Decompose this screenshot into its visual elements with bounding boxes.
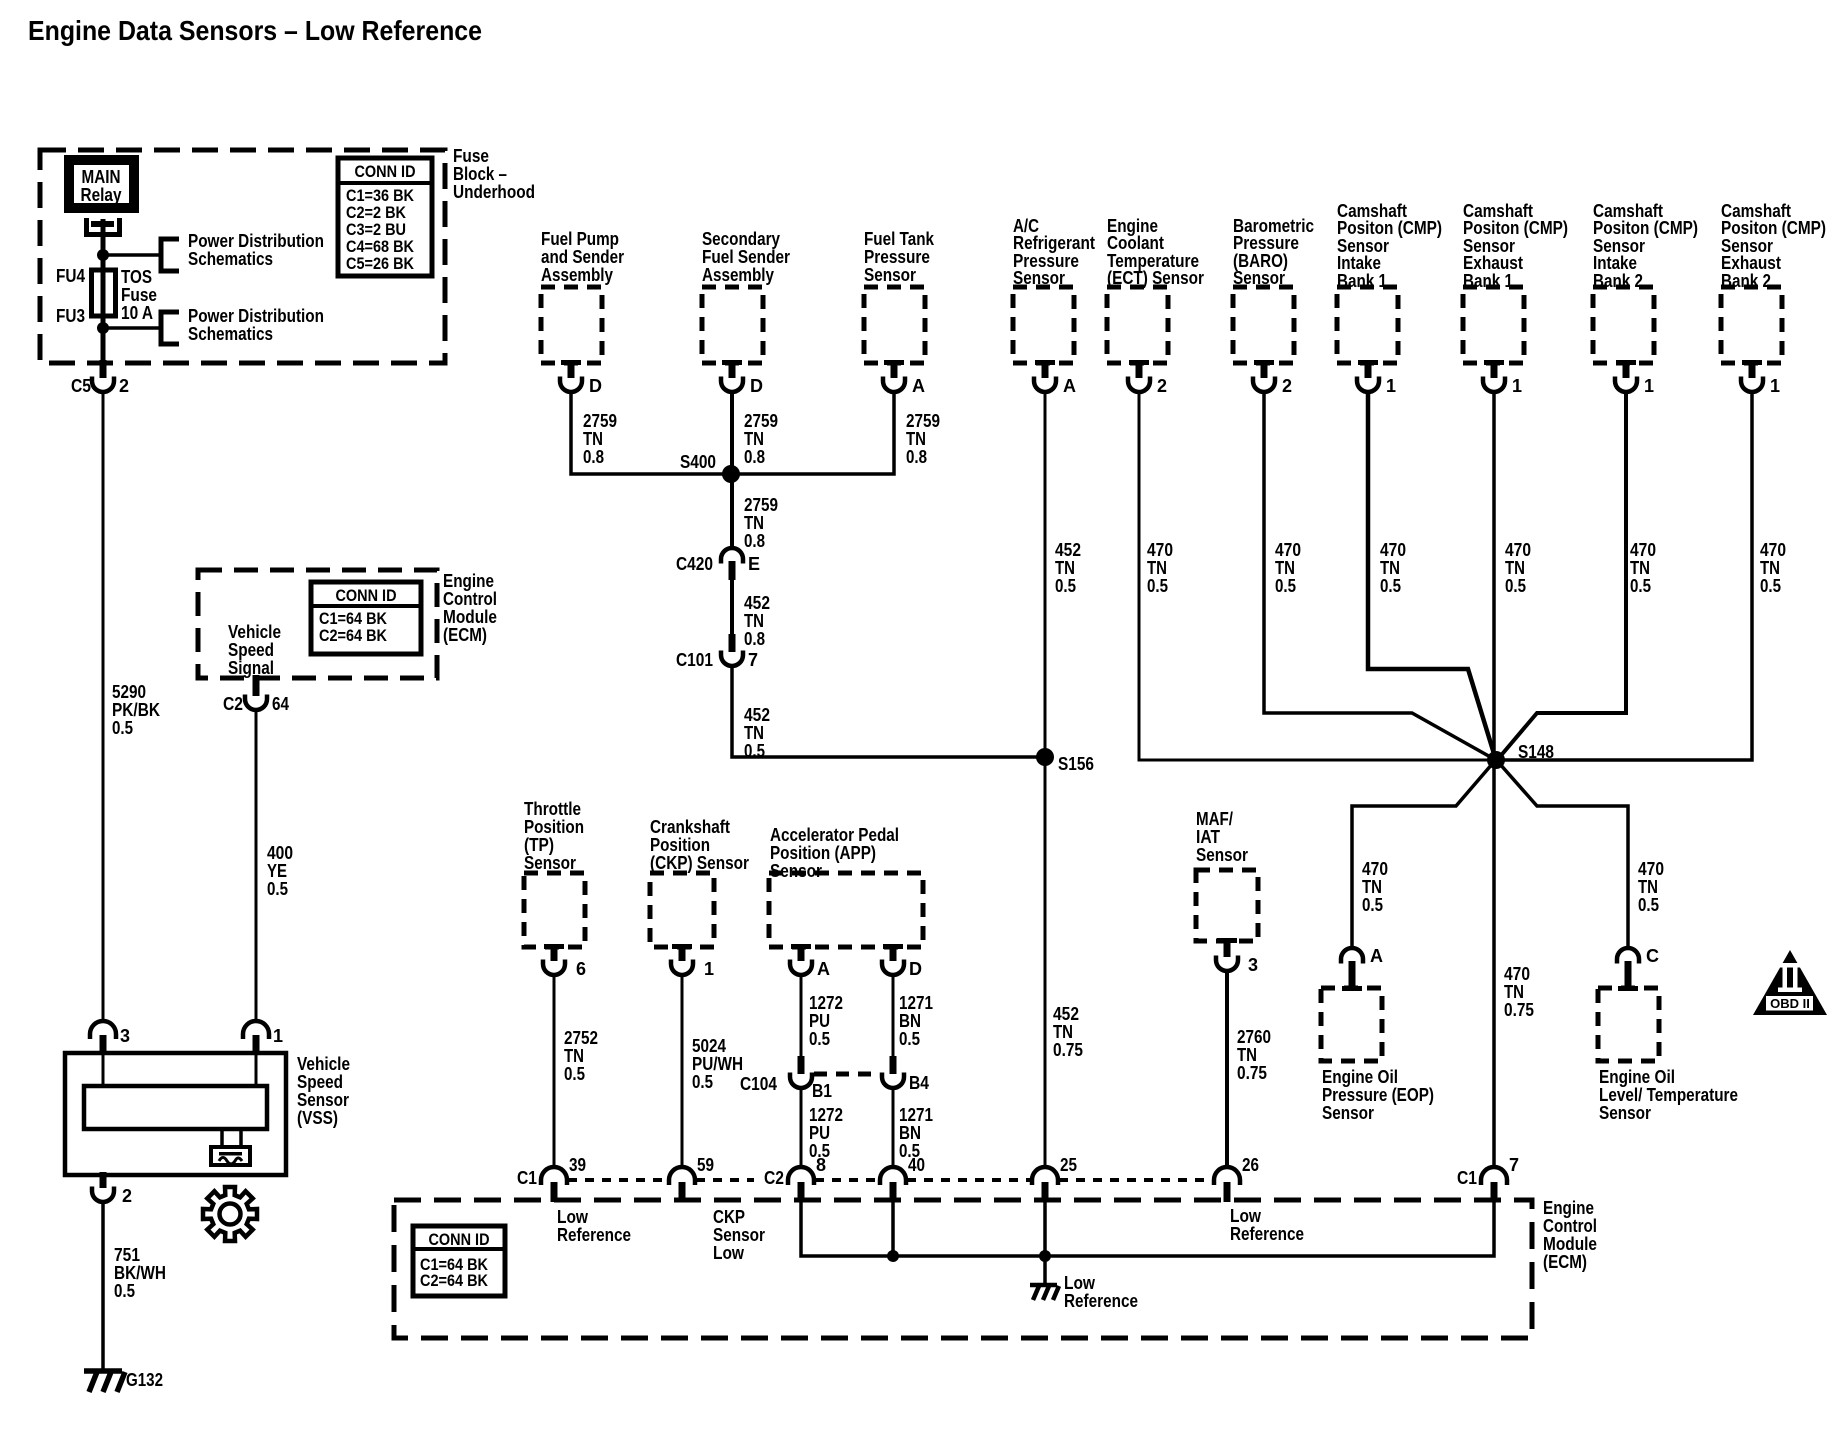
pin 2 of Engine Coolant Temperature (ECT) Sensor (1129, 360, 1149, 365)
ECM pin 59 connector (669, 1167, 695, 1185)
svg-text:C101: C101 (676, 650, 713, 670)
svg-text:BN: BN (899, 1123, 921, 1143)
svg-text:C2=64 BK: C2=64 BK (319, 626, 388, 645)
svg-text:2760: 2760 (1237, 1027, 1271, 1047)
sensor CMP Sensor Intake Bank 1 (1337, 287, 1398, 363)
svg-text:D: D (589, 376, 602, 396)
svg-text:Fuel Pump: Fuel Pump (541, 229, 619, 249)
svg-text:C2: C2 (764, 1168, 784, 1188)
svg-text:452: 452 (1053, 1004, 1079, 1024)
pin A of engine oil pressure (EOP) sensor (1341, 948, 1363, 964)
svg-text:C1: C1 (517, 1168, 537, 1188)
CONN ID table (fuse block) (338, 158, 432, 276)
svg-text:Low: Low (557, 1207, 589, 1227)
svg-text:CONN ID: CONN ID (355, 162, 416, 181)
svg-text:Control: Control (1543, 1216, 1597, 1236)
svg-text:Signal: Signal (228, 658, 274, 678)
svg-text:Power Distribution: Power Distribution (188, 231, 324, 251)
ECM pin 39 connector (541, 1167, 567, 1185)
svg-text:TN: TN (583, 429, 603, 449)
wire CMP intake bank2 470 TN (1498, 391, 1626, 759)
svg-text:TN: TN (744, 611, 764, 631)
VSS pin 1 connector (243, 1021, 269, 1039)
pin C of engine oil level/temperature sensor (1617, 948, 1639, 964)
svg-text:470: 470 (1275, 540, 1301, 560)
svg-text:0.5: 0.5 (1505, 576, 1526, 596)
CONN ID table (upper ECM) (311, 582, 421, 654)
svg-text:2: 2 (122, 1186, 132, 1206)
wire CMP exhaust bank2 470 TN (1502, 391, 1752, 760)
svg-text:Sensor: Sensor (1233, 268, 1285, 288)
svg-text:8: 8 (816, 1155, 826, 1175)
wire CMP intake bank1 470 TN (1368, 391, 1495, 757)
svg-text:0.5: 0.5 (1638, 895, 1659, 915)
svg-text:Module: Module (1543, 1234, 1597, 1254)
ECM pin row dashed line (568, 1178, 668, 1182)
svg-text:MAIN: MAIN (82, 167, 121, 187)
svg-text:0.5: 0.5 (1630, 576, 1651, 596)
wire to off-page 1 (103, 253, 161, 257)
svg-text:C5=26 BK: C5=26 BK (346, 254, 415, 273)
svg-text:39: 39 (569, 1155, 586, 1175)
C104 connector dashed link (814, 1072, 880, 1077)
pin 1 of CMP Sensor Intake Bank 1 (1358, 360, 1378, 365)
svg-text:TN: TN (1055, 558, 1075, 578)
svg-text:Sensor: Sensor (524, 853, 576, 873)
wire APP-D 1271 BN lower (892, 1088, 895, 1167)
svg-text:S156: S156 (1058, 754, 1094, 774)
svg-text:FU3: FU3 (56, 306, 85, 326)
svg-text:3: 3 (120, 1026, 130, 1046)
svg-text:C2: C2 (223, 694, 243, 714)
svg-text:Engine: Engine (1543, 1198, 1594, 1218)
svg-text:0.5: 0.5 (1147, 576, 1168, 596)
svg-text:Underhood: Underhood (453, 182, 535, 202)
svg-text:PU: PU (809, 1011, 830, 1031)
sensor crankshaft position (CKP) (650, 873, 714, 947)
svg-text:1272: 1272 (809, 993, 843, 1013)
sensor engine oil level/temperature sensor (1598, 988, 1659, 1061)
svg-text:1: 1 (704, 959, 714, 979)
svg-text:(TP): (TP) (524, 835, 554, 855)
svg-text:Secondary: Secondary (702, 229, 780, 249)
svg-text:PK/BK: PK/BK (112, 700, 160, 720)
svg-text:0.5: 0.5 (744, 741, 765, 761)
wire APP-A 1272 PU upper (800, 975, 803, 1056)
svg-text:C: C (1646, 946, 1659, 966)
splice S400 (722, 465, 740, 483)
wire fuel tank 2759 TN (735, 391, 894, 474)
svg-text:Bank 2: Bank 2 (1721, 271, 1771, 291)
svg-text:OBD II: OBD II (1770, 996, 1810, 1011)
VSS pickup coil (220, 1129, 224, 1147)
svg-text:2: 2 (1157, 376, 1167, 396)
connector C104 pin B1 (798, 1056, 805, 1074)
svg-text:YE: YE (267, 861, 287, 881)
svg-text:Fuel Tank: Fuel Tank (864, 229, 935, 249)
svg-text:2759: 2759 (744, 411, 778, 431)
sensor CMP Sensor Exhaust Bank 2 (1721, 287, 1782, 363)
MAIN Relay box (64, 155, 139, 213)
pin 1 of CKP sensor (672, 944, 692, 949)
wire to off-page 2 (103, 326, 161, 330)
svg-text:1271: 1271 (899, 1105, 933, 1125)
svg-text:0.5: 0.5 (1055, 576, 1076, 596)
svg-text:2759: 2759 (906, 411, 940, 431)
ECM pin 25 connector (1032, 1167, 1058, 1185)
svg-text:B4: B4 (909, 1073, 929, 1093)
svg-text:TN: TN (564, 1046, 584, 1066)
VSS pin 3 connector (90, 1021, 116, 1039)
svg-text:Engine Oil: Engine Oil (1322, 1067, 1398, 1087)
svg-text:Low: Low (1230, 1206, 1262, 1226)
svg-text:TN: TN (1362, 877, 1382, 897)
svg-text:Schematics: Schematics (188, 324, 273, 344)
svg-text:1272: 1272 (809, 1105, 843, 1125)
svg-text:Fuse: Fuse (453, 146, 489, 166)
svg-text:Positon (CMP): Positon (CMP) (1593, 218, 1698, 238)
svg-text:25: 25 (1060, 1155, 1077, 1175)
svg-text:0.75: 0.75 (1237, 1063, 1267, 1083)
svg-text:TN: TN (1147, 558, 1167, 578)
wire to EOP sensor 470 TN (1352, 763, 1493, 947)
svg-text:Pressure: Pressure (864, 247, 930, 267)
internal ground (low reference) (1030, 1285, 1059, 1300)
svg-text:(ECM): (ECM) (1543, 1252, 1587, 1272)
svg-text:S400: S400 (680, 452, 716, 472)
svg-text:Exhaust: Exhaust (1721, 253, 1781, 273)
svg-text:Control: Control (443, 589, 497, 609)
svg-text:1: 1 (1644, 376, 1654, 396)
svg-text:0.5: 0.5 (1275, 576, 1296, 596)
svg-text:TN: TN (1630, 558, 1650, 578)
connector C420 pin E (721, 548, 743, 564)
svg-text:Exhaust: Exhaust (1463, 253, 1523, 273)
off-page connector: Power Distribution Schematics (top) (161, 239, 179, 271)
svg-text:MAF/: MAF/ (1196, 809, 1233, 829)
svg-text:Accelerator Pedal: Accelerator Pedal (770, 825, 899, 845)
svg-text:and Sender: and Sender (541, 247, 624, 267)
sensor engine oil pressure (EOP) sensor (1321, 988, 1382, 1061)
wire A/C sensor 452 TN to pin 25 (1044, 391, 1047, 1167)
junction pin 25 bus (1039, 1250, 1051, 1262)
svg-text:2: 2 (119, 376, 129, 396)
svg-text:Speed: Speed (228, 640, 274, 660)
svg-text:Vehicle: Vehicle (297, 1054, 350, 1074)
wire secondary fuel sender 2759 TN (730, 391, 734, 548)
junction relay/FU4 (97, 249, 109, 261)
svg-text:470: 470 (1760, 540, 1786, 560)
svg-text:C420: C420 (676, 554, 713, 574)
svg-text:2752: 2752 (564, 1028, 598, 1048)
svg-text:Throttle: Throttle (524, 799, 581, 819)
svg-text:TN: TN (744, 429, 764, 449)
svg-text:452: 452 (744, 593, 770, 613)
svg-text:0.5: 0.5 (809, 1029, 830, 1049)
svg-text:470: 470 (1630, 540, 1656, 560)
svg-text:(VSS): (VSS) (297, 1108, 338, 1128)
svg-text:Pressure: Pressure (1233, 233, 1299, 253)
connector C101 pin 7 (729, 634, 736, 652)
svg-text:Assembly: Assembly (702, 265, 774, 285)
svg-text:TN: TN (1504, 982, 1524, 1002)
sensor Fuel Pump and Sender Assembly (541, 287, 602, 363)
sensor MAF/IAT (1196, 870, 1258, 941)
svg-text:TN: TN (1505, 558, 1525, 578)
svg-text:Positon (CMP): Positon (CMP) (1721, 218, 1826, 238)
svg-text:Schematics: Schematics (188, 249, 273, 269)
svg-text:A: A (1063, 376, 1076, 396)
svg-text:0.5: 0.5 (267, 879, 288, 899)
wire pin 25 to bus (1043, 1202, 1047, 1256)
svg-text:C5: C5 (71, 376, 91, 396)
svg-text:S148: S148 (1518, 742, 1554, 762)
svg-text:5024: 5024 (692, 1036, 726, 1056)
svg-text:Position (APP): Position (APP) (770, 843, 876, 863)
svg-text:Crankshaft: Crankshaft (650, 817, 730, 837)
svg-text:59: 59 (697, 1155, 714, 1175)
svg-text:TN: TN (1380, 558, 1400, 578)
svg-text:Assembly: Assembly (541, 265, 613, 285)
pin 2 of Barometric Pressure (BARO) Sensor (1254, 360, 1274, 365)
svg-text:PU: PU (809, 1123, 830, 1143)
svg-text:0.75: 0.75 (1053, 1040, 1083, 1060)
svg-text:TN: TN (744, 513, 764, 533)
ECM pin 7 connector (1481, 1167, 1507, 1185)
connector C5 pin 2 (100, 360, 107, 378)
ECM pin 26 connector (1214, 1167, 1240, 1185)
svg-text:D: D (750, 376, 763, 396)
ground G132 (84, 1371, 125, 1392)
svg-text:0.5: 0.5 (1362, 895, 1383, 915)
wire ECT 470 TN (1139, 391, 1490, 760)
svg-text:0.8: 0.8 (583, 447, 604, 467)
wire to engine oil level/temp 470 TN (1499, 763, 1628, 947)
connector C2 pin 64 (253, 675, 260, 696)
OBD II symbol (1753, 950, 1827, 1015)
svg-text:Vehicle: Vehicle (228, 622, 281, 642)
svg-text:0.5: 0.5 (899, 1029, 920, 1049)
svg-text:Module: Module (443, 607, 497, 627)
svg-text:Coolant: Coolant (1107, 233, 1164, 253)
svg-text:751: 751 (114, 1245, 140, 1265)
ECM pin 40 connector (880, 1167, 906, 1185)
svg-text:Bank 1: Bank 1 (1463, 271, 1513, 291)
svg-text:Fuel Sender: Fuel Sender (702, 247, 790, 267)
svg-text:470: 470 (1147, 540, 1173, 560)
wire TP 2752 TN (553, 975, 556, 1167)
wire pin 40 to bus (891, 1202, 895, 1256)
pin A of Fuel Tank Pressure Sensor (884, 360, 904, 365)
svg-text:0.5: 0.5 (1380, 576, 1401, 596)
sensor Fuel Tank Pressure Sensor (864, 287, 925, 363)
ECM box (bottom) (394, 1200, 1532, 1338)
svg-text:0.8: 0.8 (744, 629, 765, 649)
svg-text:CONN ID: CONN ID (429, 1230, 490, 1249)
wire CMP exhaust bank1 470 TN down to pin C1-7 (1492, 391, 1496, 1167)
svg-text:(CKP) Sensor: (CKP) Sensor (650, 853, 749, 873)
off-page connector: Power Distribution Schematics (bottom) (161, 312, 179, 344)
svg-text:1: 1 (1770, 376, 1780, 396)
svg-text:A: A (817, 959, 830, 979)
wire relay to C5 (101, 219, 106, 365)
svg-text:0.5: 0.5 (692, 1072, 713, 1092)
svg-text:BN: BN (899, 1011, 921, 1031)
svg-text:TN: TN (1760, 558, 1780, 578)
svg-text:452: 452 (744, 705, 770, 725)
svg-text:TN: TN (1275, 558, 1295, 578)
Vehicle Speed Sensor (VSS) box (65, 1053, 286, 1175)
ECM box (vehicle speed signal) (198, 570, 437, 678)
svg-text:Relay: Relay (81, 185, 122, 205)
stub to internal ground (1043, 1256, 1047, 1283)
wire CKP 5024 PU/WH (681, 975, 684, 1167)
splice S156 (1036, 748, 1054, 766)
svg-text:Bank 1: Bank 1 (1337, 271, 1387, 291)
svg-text:470: 470 (1362, 859, 1388, 879)
svg-text:Engine Data Sensors – Low Refe: Engine Data Sensors – Low Reference (28, 15, 482, 46)
sensor Barometric Pressure (BARO) Sensor (1233, 287, 1294, 363)
pin A of A/C Refrigerant Pressure Sensor (1035, 360, 1055, 365)
svg-text:Level/ Temperature: Level/ Temperature (1599, 1085, 1738, 1105)
svg-text:Sensor: Sensor (770, 861, 822, 881)
svg-text:0.5: 0.5 (112, 718, 133, 738)
svg-text:FU4: FU4 (56, 266, 85, 286)
wire BARO 470 TN (1264, 391, 1494, 759)
svg-text:CKP: CKP (713, 1207, 745, 1227)
junction pin 40 bus (887, 1250, 899, 1262)
svg-text:470: 470 (1380, 540, 1406, 560)
svg-text:C104: C104 (740, 1074, 777, 1094)
svg-text:2759: 2759 (744, 495, 778, 515)
pin 1 of CMP Sensor Exhaust Bank 2 (1742, 360, 1762, 365)
svg-text:TOS: TOS (121, 267, 152, 287)
svg-text:Intake: Intake (1593, 253, 1637, 273)
svg-text:Fuse: Fuse (121, 285, 157, 305)
svg-text:Reference: Reference (557, 1225, 631, 1245)
svg-text:470: 470 (1505, 540, 1531, 560)
svg-text:Engine Oil: Engine Oil (1599, 1067, 1675, 1087)
svg-text:1: 1 (273, 1026, 283, 1046)
gear icon (203, 1187, 257, 1241)
svg-text:BK/WH: BK/WH (114, 1263, 166, 1283)
fuse FU4/FU3 TOS Fuse 10 A (92, 270, 116, 316)
CONN ID table (bottom ECM) (413, 1226, 505, 1296)
svg-text:Engine: Engine (443, 571, 494, 591)
sensor Secondary Fuel Sender Assembly (702, 287, 763, 363)
svg-text:Reference: Reference (1064, 1291, 1138, 1311)
wire MAF 2760 TN (1225, 971, 1229, 1167)
svg-text:470: 470 (1504, 964, 1530, 984)
VSS pin 2 connector (100, 1172, 107, 1188)
wire 400 YE (255, 710, 258, 1022)
svg-text:Position: Position (650, 835, 710, 855)
wire APP-D 1271 BN upper (892, 975, 895, 1056)
svg-text:1: 1 (1512, 376, 1522, 396)
svg-text:7: 7 (1509, 1155, 1519, 1175)
svg-text:Refrigerant: Refrigerant (1013, 233, 1095, 253)
pin 6 of TP sensor (544, 944, 564, 949)
svg-text:A: A (912, 376, 925, 396)
svg-text:PU/WH: PU/WH (692, 1054, 743, 1074)
svg-text:2: 2 (1282, 376, 1292, 396)
svg-text:Sensor: Sensor (1322, 1103, 1374, 1123)
svg-text:64: 64 (272, 694, 289, 714)
sensor Engine Coolant Temperature (ECT) Sensor (1107, 287, 1168, 363)
svg-text:Positon (CMP): Positon (CMP) (1463, 218, 1568, 238)
svg-text:D: D (909, 959, 922, 979)
svg-text:Sensor: Sensor (1196, 845, 1248, 865)
svg-text:Low: Low (713, 1243, 745, 1263)
svg-text:Speed: Speed (297, 1072, 343, 1092)
svg-text:Sensor: Sensor (1599, 1103, 1651, 1123)
svg-text:0.8: 0.8 (744, 531, 765, 551)
svg-text:TN: TN (1638, 877, 1658, 897)
svg-text:0.8: 0.8 (744, 447, 765, 467)
svg-text:Sensor: Sensor (1013, 268, 1065, 288)
svg-text:Positon (CMP): Positon (CMP) (1337, 218, 1442, 238)
svg-text:G132: G132 (126, 1370, 163, 1390)
svg-text:1: 1 (1386, 376, 1396, 396)
sensor throttle position (TP) (524, 873, 585, 947)
wire fuel pump 2759 TN (571, 391, 727, 474)
svg-text:C2=64 BK: C2=64 BK (420, 1271, 489, 1290)
svg-text:40: 40 (908, 1155, 925, 1175)
svg-text:5290: 5290 (112, 682, 146, 702)
svg-text:Position: Position (524, 817, 584, 837)
svg-text:0.5: 0.5 (564, 1064, 585, 1084)
svg-text:10 A: 10 A (121, 303, 153, 323)
svg-text:CONN ID: CONN ID (336, 586, 397, 605)
wire 452 TN 0.5 to S156 (732, 666, 1041, 757)
svg-text:Sensor: Sensor (713, 1225, 765, 1245)
pin D of APP sensor (883, 944, 903, 949)
svg-text:452: 452 (1055, 540, 1081, 560)
svg-text:Low: Low (1064, 1273, 1096, 1293)
svg-text:C1: C1 (1457, 1168, 1477, 1188)
svg-text:TN: TN (906, 429, 926, 449)
sensor A/C Refrigerant Pressure Sensor (1013, 287, 1074, 363)
ECM internal low reference bus (801, 1202, 1494, 1256)
connector C104 pin B4 (890, 1056, 897, 1074)
svg-text:(ECT) Sensor: (ECT) Sensor (1107, 268, 1204, 288)
svg-text:TN: TN (1237, 1045, 1257, 1065)
svg-text:26: 26 (1242, 1155, 1259, 1175)
sensor CMP Sensor Exhaust Bank 1 (1463, 287, 1524, 363)
svg-text:400: 400 (267, 843, 293, 863)
svg-text:Intake: Intake (1337, 253, 1381, 273)
wire 751 BK/WH (101, 1202, 105, 1370)
pin D of Secondary Fuel Sender Assembly (722, 360, 742, 365)
svg-text:Bank 2: Bank 2 (1593, 271, 1643, 291)
svg-text:2759: 2759 (583, 411, 617, 431)
relay contact K (87, 218, 120, 235)
fuse block - underhood box (40, 150, 445, 363)
wire APP-A 1272 PU lower (800, 1088, 803, 1167)
pin 3 of MAF/IAT sensor (1217, 938, 1237, 943)
svg-text:Sensor: Sensor (297, 1090, 349, 1110)
ECM pin 8 connector (788, 1167, 814, 1185)
sensor CMP Sensor Intake Bank 2 (1593, 287, 1654, 363)
svg-text:1271: 1271 (899, 993, 933, 1013)
pin A of APP sensor (791, 944, 811, 949)
svg-text:470: 470 (1638, 859, 1664, 879)
svg-text:Power Distribution: Power Distribution (188, 306, 324, 326)
sensor accelerator pedal position (APP) (769, 873, 923, 947)
svg-text:A: A (1370, 946, 1383, 966)
svg-text:TN: TN (744, 723, 764, 743)
svg-text:E: E (748, 554, 760, 574)
